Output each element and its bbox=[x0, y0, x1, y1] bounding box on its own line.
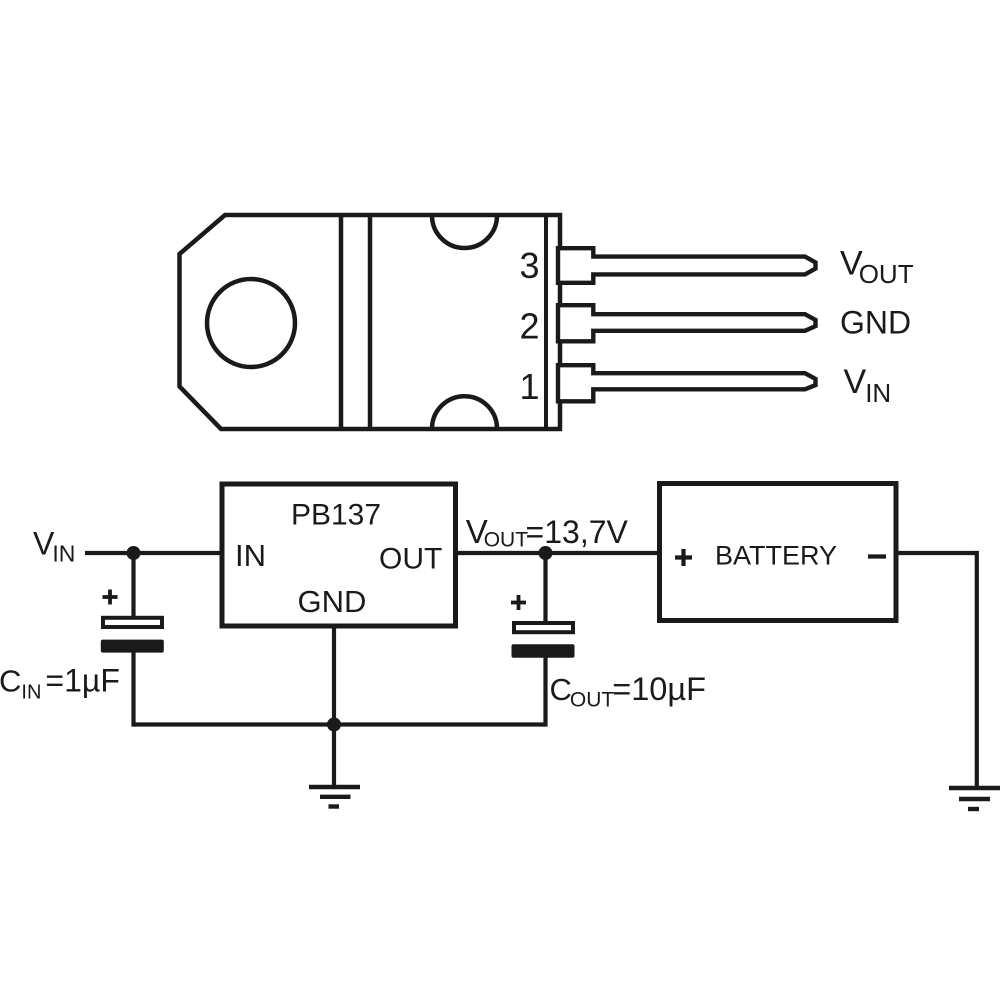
svg-text:3: 3 bbox=[519, 245, 539, 286]
junction dot VIN/CIN bbox=[127, 546, 141, 560]
battery B1 box bbox=[660, 484, 897, 621]
wire regulator GND down bbox=[332, 626, 336, 786]
junction dot VOUT/COUT bbox=[539, 546, 553, 560]
package bottom notch bbox=[432, 396, 497, 429]
svg-text:2: 2 bbox=[519, 306, 539, 347]
wire CIN bottom bbox=[131, 652, 135, 727]
svg-text:PB137: PB137 bbox=[291, 499, 381, 532]
battery plus sign bbox=[675, 555, 692, 559]
pin 2 lead bbox=[558, 305, 816, 341]
capacitor C1 CIN plus sign bbox=[103, 595, 118, 599]
wire junction to COUT top bbox=[543, 553, 547, 623]
wire VIN to regulator bbox=[85, 551, 222, 555]
junction dot GND/bottom wire bbox=[327, 718, 341, 732]
bottom wire CIN to COUT bbox=[134, 722, 546, 726]
svg-text:GND: GND bbox=[840, 305, 911, 341]
svg-text:1: 1 bbox=[519, 366, 539, 407]
capacitor C1 CIN top plate bbox=[103, 618, 162, 627]
wire battery to right drop bbox=[896, 551, 977, 555]
capacitor C2 COUT top plate bbox=[514, 623, 573, 632]
battery minus sign bbox=[868, 554, 886, 558]
package mounting hole bbox=[207, 279, 295, 367]
regulator U1 PB137 box bbox=[222, 484, 456, 626]
capacitor C2 COUT plus sign bbox=[511, 601, 526, 605]
wire COUT bottom bbox=[543, 656, 547, 727]
svg-text:OUT: OUT bbox=[379, 543, 442, 576]
wire junction to CIN top bbox=[131, 553, 135, 617]
pin 1 lead bbox=[558, 365, 816, 401]
pin 3 lead bbox=[558, 248, 816, 283]
svg-text:IN: IN bbox=[235, 538, 266, 573]
package top notch bbox=[432, 216, 497, 249]
capacitor C2 COUT bottom plate bbox=[512, 644, 575, 658]
ground right symbol bbox=[949, 786, 1000, 790]
svg-text:BATTERY: BATTERY bbox=[715, 541, 837, 571]
svg-text:CIN=1µF: CIN=1µF bbox=[0, 663, 120, 704]
package inner right line bbox=[544, 215, 548, 429]
package tab line 2 bbox=[368, 215, 373, 429]
capacitor C1 CIN bottom plate bbox=[101, 640, 164, 653]
svg-text:GND: GND bbox=[298, 584, 367, 619]
package U1 TO-220 outline bbox=[180, 215, 561, 429]
ground left symbol bbox=[309, 785, 360, 789]
package tab line 1 bbox=[339, 215, 344, 429]
wire OUT to battery bbox=[456, 551, 660, 555]
wire right vertical drop bbox=[975, 551, 979, 788]
